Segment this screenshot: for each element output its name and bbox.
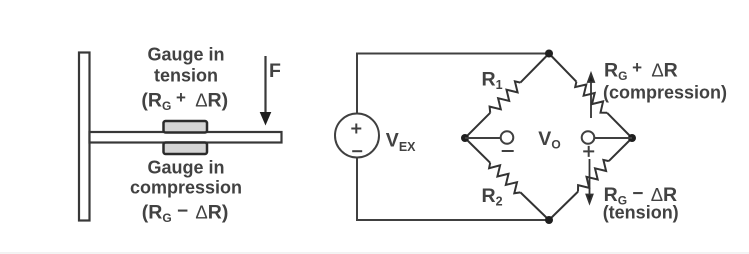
svg-text:(RG + ΔR): (RG + ΔR): [141, 88, 228, 113]
svg-text:(compression): (compression): [603, 83, 727, 103]
svg-text:VEX: VEX: [386, 130, 416, 155]
svg-text:compression: compression: [130, 178, 242, 198]
svg-text:Gauge in: Gauge in: [147, 45, 224, 65]
svg-text:RG + ΔR: RG + ΔR: [604, 58, 678, 83]
svg-text:Gauge in: Gauge in: [147, 157, 224, 177]
svg-text:R1: R1: [482, 69, 503, 93]
svg-text:tension: tension: [154, 66, 218, 86]
svg-text:F: F: [269, 60, 281, 82]
svg-text:R2: R2: [482, 185, 503, 209]
svg-text:VO: VO: [538, 128, 560, 152]
svg-text:(RG − ΔR): (RG − ΔR): [142, 201, 229, 225]
svg-text:(tension): (tension): [603, 203, 679, 223]
